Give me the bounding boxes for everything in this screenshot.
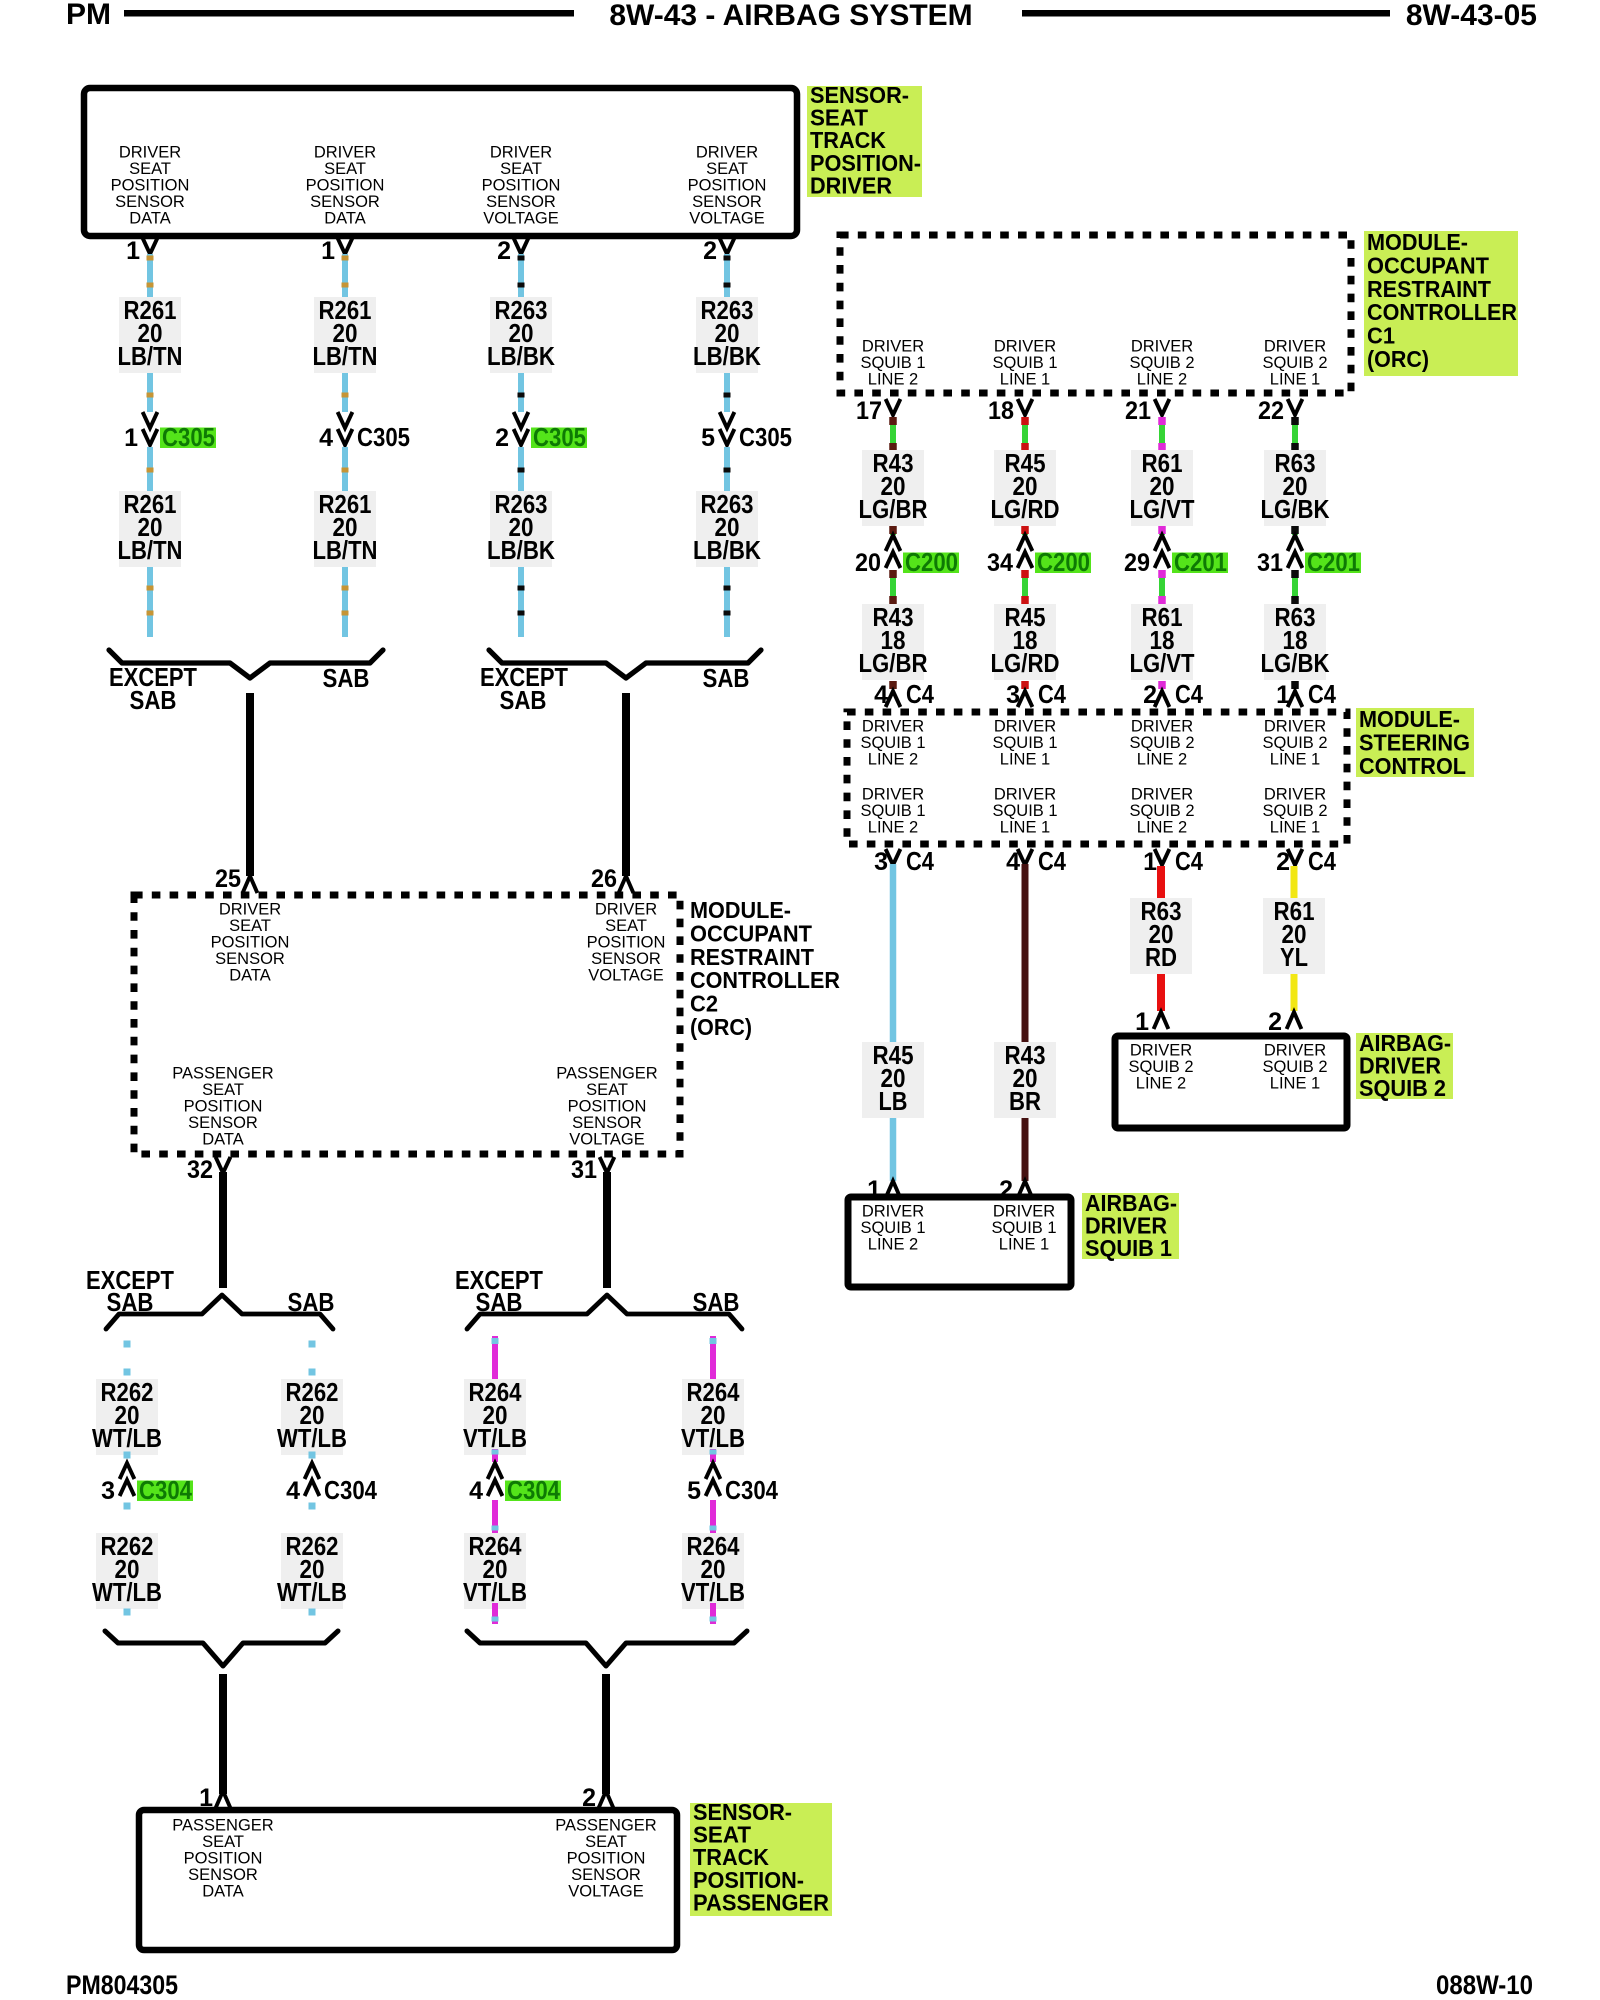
wire R43 segment (ORC pin 17 to label) xyxy=(889,417,897,451)
svg-text:OCCUPANT: OCCUPANT xyxy=(690,920,812,946)
svg-text:SENSOR: SENSOR xyxy=(188,1114,258,1132)
connector C4 pin 2 (steering module bottom) xyxy=(1276,846,1336,876)
wire segment (C200 to label) xyxy=(1021,570,1029,604)
svg-text:18: 18 xyxy=(988,397,1014,425)
pin label driver squib 2 line 1 (squib 2 pin 2) xyxy=(1262,1042,1327,1093)
wire R43 BR segment (label to squib 1) xyxy=(1022,1118,1029,1181)
svg-text:(ORC): (ORC) xyxy=(690,1014,752,1040)
wire R43 BR segment (C4 to label) xyxy=(1022,864,1029,1042)
wire label R63 20 RD xyxy=(1130,896,1192,974)
wire segment (lower col 1, C304 to label) xyxy=(124,1503,131,1510)
svg-text:LB/BK: LB/BK xyxy=(693,341,761,371)
wire label R61 18 LG/VT xyxy=(1130,602,1195,680)
svg-text:DRIVER: DRIVER xyxy=(1264,338,1326,356)
connector C304 pin 4 (lower col 3) xyxy=(469,1463,561,1505)
svg-text:SEAT: SEAT xyxy=(585,1833,627,1851)
svg-text:SQUIB 1: SQUIB 1 xyxy=(860,734,925,752)
svg-text:SQUIB 2: SQUIB 2 xyxy=(1129,802,1194,820)
wire label R45 20 LG/RD xyxy=(991,448,1060,526)
pin 25 of ORC C2 xyxy=(215,865,257,893)
svg-text:PASSENGER: PASSENGER xyxy=(556,1065,658,1083)
pin label driver squib 1 line 2 (steering module out, col 1) xyxy=(860,786,925,837)
label SAB (right pair) xyxy=(703,663,750,693)
label SAB (left pair) xyxy=(323,663,370,693)
svg-text:SENSOR: SENSOR xyxy=(310,193,380,211)
svg-text:17: 17 xyxy=(856,397,882,425)
svg-text:SAB: SAB xyxy=(130,685,177,715)
svg-text:32: 32 xyxy=(187,1156,213,1184)
wire R63 RD segment (label to squib 2) xyxy=(1157,974,1165,1011)
header rule left xyxy=(124,10,574,17)
wire label R264 20 VT/LB (lower, lower col 4) xyxy=(681,1531,745,1609)
svg-text:2: 2 xyxy=(1276,848,1290,876)
wire merged to passenger sensor pin 1 xyxy=(219,1674,227,1794)
svg-text:SQUIB 1: SQUIB 1 xyxy=(860,354,925,372)
wire R61 YL segment (label to squib 2) xyxy=(1291,974,1298,1011)
svg-text:1: 1 xyxy=(124,424,138,452)
svg-text:SQUIB 2: SQUIB 2 xyxy=(1359,1075,1446,1101)
svg-text:SQUIB 2: SQUIB 2 xyxy=(1262,734,1327,752)
wire label R61 20 LG/VT xyxy=(1130,448,1195,526)
pin 31 of ORC C2 xyxy=(571,1156,614,1184)
svg-text:VOLTAGE: VOLTAGE xyxy=(588,967,664,985)
wire label R264 20 VT/LB (upper, lower col 4) xyxy=(681,1377,745,1455)
svg-text:SQUIB 2: SQUIB 2 xyxy=(1128,1058,1193,1076)
svg-text:DRIVER: DRIVER xyxy=(1264,786,1326,804)
svg-text:LB/BK: LB/BK xyxy=(487,535,555,565)
label sensor seat track position passenger (highlighted) xyxy=(690,1799,832,1916)
svg-text:C4: C4 xyxy=(1308,846,1336,876)
wire label R262 20 WT/LB (lower, lower col 2) xyxy=(277,1531,347,1609)
wire label R63 18 LG/BK xyxy=(1261,602,1330,680)
splice brace EXCEPT SAB / SAB (left pair) xyxy=(109,650,383,678)
connector C4 pin 3 (steering module bottom) xyxy=(874,846,934,876)
svg-text:31: 31 xyxy=(571,1156,597,1184)
svg-text:DRIVER: DRIVER xyxy=(119,144,181,162)
svg-text:POSITION: POSITION xyxy=(482,177,561,195)
svg-text:34: 34 xyxy=(987,549,1013,577)
svg-text:LG/RD: LG/RD xyxy=(991,494,1060,524)
svg-text:MODULE-: MODULE- xyxy=(1359,706,1460,732)
svg-text:LB/TN: LB/TN xyxy=(118,535,183,565)
svg-text:C304: C304 xyxy=(324,1475,377,1505)
wire segment (lower col 1, label to C304) xyxy=(124,1452,131,1459)
wire label R264 20 VT/LB (upper, lower col 3) xyxy=(463,1377,527,1455)
svg-text:YL: YL xyxy=(1280,942,1308,972)
svg-text:LINE 1: LINE 1 xyxy=(1000,819,1050,837)
svg-text:RESTRAINT: RESTRAINT xyxy=(690,944,814,970)
connector C305 pin 5 (col 4) xyxy=(701,412,792,452)
svg-text:4: 4 xyxy=(874,681,888,709)
wire R263 segment (col 4, pin to label) xyxy=(724,254,731,297)
connector C4 pin 4 (steering module bottom) xyxy=(1006,846,1066,876)
pin label passenger seat position sensor data (ORC C2 pin 32) xyxy=(172,1065,274,1149)
svg-text:C305: C305 xyxy=(162,422,215,452)
svg-text:VOLTAGE: VOLTAGE xyxy=(689,210,765,228)
pin label driver squib 2 line 2 (steering module out, col 3) xyxy=(1129,786,1194,837)
header label PM xyxy=(66,0,111,31)
svg-text:DATA: DATA xyxy=(129,210,171,228)
svg-text:DATA: DATA xyxy=(202,1131,244,1149)
label EXCEPT SAB (lower left) xyxy=(86,1265,174,1317)
svg-text:C200: C200 xyxy=(1037,547,1090,577)
svg-text:POSITION: POSITION xyxy=(184,1850,263,1868)
label sensor seat track position driver (highlighted) xyxy=(807,82,922,198)
svg-text:SQUIB 2: SQUIB 2 xyxy=(1262,1058,1327,1076)
wire label R261 20 LB/TN (upper, col 1) xyxy=(118,295,183,373)
svg-text:PASSENGER: PASSENGER xyxy=(172,1817,274,1835)
svg-text:POSITION: POSITION xyxy=(111,177,190,195)
svg-text:SAB: SAB xyxy=(500,685,547,715)
wire R45 LB segment (label to squib 1) xyxy=(890,1118,897,1181)
pin label driver squib 2 line 1 (steering module out, col 4) xyxy=(1262,786,1327,837)
wire R262 segment (lower col 1, brace to label) xyxy=(124,1341,131,1376)
svg-text:LINE 2: LINE 2 xyxy=(868,371,918,389)
svg-text:SENSOR: SENSOR xyxy=(692,193,762,211)
svg-text:WT/LB: WT/LB xyxy=(92,1577,162,1607)
wire segment (C201 to label) xyxy=(1158,570,1166,604)
svg-text:DRIVER: DRIVER xyxy=(314,144,376,162)
svg-text:SQUIB 1: SQUIB 1 xyxy=(992,734,1057,752)
airbag driver squib 2 (component box) xyxy=(1115,1036,1347,1128)
wire segment (col 3, C305 to label) xyxy=(518,447,525,491)
module occupant restraint controller C2 (dashed box) xyxy=(134,895,680,1154)
svg-text:DRIVER: DRIVER xyxy=(862,786,924,804)
pin label passenger seat position sensor voltage (sensor pin 2) xyxy=(555,1817,657,1901)
wire label R264 20 VT/LB (lower, lower col 3) xyxy=(463,1531,527,1609)
svg-text:DATA: DATA xyxy=(324,210,366,228)
wire label R263 20 LB/BK (lower, col 4) xyxy=(693,489,761,567)
svg-text:20: 20 xyxy=(855,549,881,577)
pin label passenger seat position sensor voltage (ORC C2 pin 31) xyxy=(556,1065,658,1149)
header rule right xyxy=(1022,10,1390,17)
wire segment (col 4, C305 to label) xyxy=(724,447,731,491)
wire R61 YL segment (C4 to label) xyxy=(1291,866,1298,898)
split brace EXCEPT SAB / SAB (lower right pair) xyxy=(467,1295,742,1329)
merge brace (bottom left pair) xyxy=(105,1631,338,1666)
svg-text:RD: RD xyxy=(1145,942,1177,972)
wire R264 segment (lower col 3, brace to label) xyxy=(492,1336,499,1379)
merge brace (bottom right pair) xyxy=(467,1631,747,1666)
connector C201 pin 31 xyxy=(1257,535,1361,577)
label SAB (lower right pair) xyxy=(693,1287,740,1317)
connector C304 pin 5 (lower col 4) xyxy=(687,1463,778,1505)
svg-text:SQUIB 1: SQUIB 1 xyxy=(860,1219,925,1237)
pin label driver squib 1 line 1 (steering module in, col 2) xyxy=(992,718,1057,769)
svg-text:DRIVER: DRIVER xyxy=(219,901,281,919)
svg-text:C304: C304 xyxy=(725,1475,778,1505)
svg-text:LG/BK: LG/BK xyxy=(1261,648,1330,678)
svg-text:5: 5 xyxy=(687,1477,701,1505)
wire label R263 20 LB/BK (lower, col 3) xyxy=(487,489,555,567)
wire label R43 18 LG/BR xyxy=(859,602,928,680)
svg-text:LB/TN: LB/TN xyxy=(313,535,378,565)
svg-text:LINE 1: LINE 1 xyxy=(1000,751,1050,769)
svg-text:C201: C201 xyxy=(1174,547,1227,577)
wire label R61 20 YL xyxy=(1263,896,1325,974)
wire segment (col 2, label to splice brace) xyxy=(342,567,349,637)
pin 2 of airbag driver squib 2 xyxy=(1268,1008,1301,1036)
svg-text:LINE 2: LINE 2 xyxy=(868,819,918,837)
svg-text:4: 4 xyxy=(1006,848,1020,876)
svg-text:PM804305: PM804305 xyxy=(66,1970,178,2000)
svg-text:LINE 1: LINE 1 xyxy=(1270,751,1320,769)
svg-text:LG/VT: LG/VT xyxy=(1130,494,1195,524)
svg-text:SEAT: SEAT xyxy=(324,160,366,178)
wire R261 segment (col 2, pin to label) xyxy=(342,254,349,297)
svg-text:VT/LB: VT/LB xyxy=(463,1577,527,1607)
pin 18 of ORC C1 xyxy=(988,397,1032,425)
svg-text:SQUIB 2: SQUIB 2 xyxy=(1129,354,1194,372)
svg-text:POSITION: POSITION xyxy=(688,177,767,195)
pin 1 of passenger seat track sensor xyxy=(199,1784,230,1812)
svg-text:LG/BR: LG/BR xyxy=(859,494,928,524)
wire R63 RD segment (C4 to label) xyxy=(1157,866,1165,898)
wire label R263 20 LB/BK (upper, col 4) xyxy=(693,295,761,373)
svg-text:LINE 1: LINE 1 xyxy=(1270,371,1320,389)
airbag driver squib 1 (component box) xyxy=(848,1197,1071,1287)
wire from ORC C2 pin 32 xyxy=(219,1172,227,1288)
pin label driver squib 1 line 1 (steering module out, col 2) xyxy=(992,786,1057,837)
label EXCEPT SAB (right pair) xyxy=(480,662,568,715)
wire segment (lower col 3, C304 to label) xyxy=(492,1500,499,1533)
svg-text:3: 3 xyxy=(1006,681,1020,709)
svg-text:LG/BK: LG/BK xyxy=(1261,494,1330,524)
pin 1 of airbag driver squib 2 xyxy=(1135,1008,1168,1036)
svg-text:SAB: SAB xyxy=(703,663,750,693)
svg-text:LINE 2: LINE 2 xyxy=(868,1236,918,1254)
svg-text:31: 31 xyxy=(1257,549,1283,577)
wire segment (lower col 1, label to merge brace) xyxy=(124,1609,131,1616)
svg-text:SQUIB 2: SQUIB 2 xyxy=(1262,802,1327,820)
svg-text:VT/LB: VT/LB xyxy=(463,1423,527,1453)
pin 1 of driver seat track sensor (col 2) xyxy=(321,237,352,265)
wire segment (label to C201) xyxy=(1158,526,1166,535)
wire segment (col 1, label to C305) xyxy=(147,373,154,412)
wire label R263 20 LB/BK (upper, col 3) xyxy=(487,295,555,373)
connector C305 pin 1 (col 1) xyxy=(124,412,216,452)
pin label driver seat position sensor voltage (col 3) xyxy=(482,144,561,228)
svg-text:C304: C304 xyxy=(139,1475,192,1505)
pin 2 of airbag driver squib 1 xyxy=(999,1176,1032,1204)
wire segment (col 4, label to splice brace) xyxy=(724,567,731,637)
wire label R261 20 LB/TN (lower, col 1) xyxy=(118,489,183,567)
wire label R262 20 WT/LB (lower, lower col 1) xyxy=(92,1531,162,1609)
wire segment (label to C201) xyxy=(1291,526,1299,535)
svg-text:5: 5 xyxy=(701,424,715,452)
label module steering control (highlighted) xyxy=(1356,706,1474,779)
svg-text:DRIVER: DRIVER xyxy=(810,172,892,198)
wire segment (lower col 4, C304 to label) xyxy=(710,1500,717,1533)
svg-text:SQUIB 1: SQUIB 1 xyxy=(992,802,1057,820)
label module occupant restraint controller C1 (ORC) (highlighted) xyxy=(1364,229,1518,376)
svg-text:POSITION: POSITION xyxy=(587,934,666,952)
svg-text:CONTROL: CONTROL xyxy=(1359,753,1466,779)
svg-text:C1: C1 xyxy=(1367,323,1395,349)
svg-text:SEAT: SEAT xyxy=(706,160,748,178)
svg-text:DRIVER: DRIVER xyxy=(1264,1042,1326,1060)
svg-text:SEAT: SEAT xyxy=(500,160,542,178)
svg-text:SAB: SAB xyxy=(476,1287,523,1317)
wire label R261 20 LB/TN (lower, col 2) xyxy=(313,489,378,567)
svg-text:2: 2 xyxy=(703,237,717,265)
svg-text:SEAT: SEAT xyxy=(202,1081,244,1099)
pin 32 of ORC C2 xyxy=(187,1156,230,1184)
svg-text:STEERING: STEERING xyxy=(1359,729,1470,755)
svg-text:SAB: SAB xyxy=(107,1287,154,1317)
svg-text:LB/BK: LB/BK xyxy=(693,535,761,565)
pin 1 of driver seat track sensor (col 1) xyxy=(126,237,157,265)
connector C4 pin 4 (steering module top) xyxy=(874,679,934,709)
connector C200 pin 20 xyxy=(855,535,959,577)
svg-text:C4: C4 xyxy=(1038,846,1066,876)
svg-text:LG/RD: LG/RD xyxy=(991,648,1060,678)
wire R264 segment (lower col 4, brace to label) xyxy=(710,1336,717,1379)
wire segment (col 1, label to splice brace) xyxy=(147,567,154,637)
pin 22 of ORC C1 xyxy=(1258,397,1302,425)
wire segment (col 1, C305 to label) xyxy=(147,447,154,491)
svg-text:(ORC): (ORC) xyxy=(1367,346,1429,372)
svg-text:LINE 1: LINE 1 xyxy=(1270,1075,1320,1093)
svg-text:BR: BR xyxy=(1009,1086,1041,1116)
svg-text:MODULE-: MODULE- xyxy=(1367,229,1468,255)
svg-text:4: 4 xyxy=(319,424,333,452)
pin label driver squib 1 line 2 (squib 1 pin 1) xyxy=(860,1203,925,1254)
svg-text:POSITION: POSITION xyxy=(211,934,290,952)
svg-text:SAB: SAB xyxy=(288,1287,335,1317)
pin 2 of driver seat track sensor (col 4) xyxy=(703,237,734,265)
wire segment (lower col 2, label to C304) xyxy=(309,1452,316,1459)
pin label driver squib 1 line 1 (ORC C1 col 2) xyxy=(992,338,1057,389)
svg-text:DRIVER: DRIVER xyxy=(1131,786,1193,804)
connector C200 pin 34 xyxy=(987,535,1091,577)
wire segment (col 4, label to C305) xyxy=(724,373,731,412)
svg-text:LG/VT: LG/VT xyxy=(1130,648,1195,678)
svg-text:8W-43-05: 8W-43-05 xyxy=(1406,0,1537,32)
svg-text:4: 4 xyxy=(286,1477,300,1505)
svg-text:WT/LB: WT/LB xyxy=(277,1423,347,1453)
svg-text:RESTRAINT: RESTRAINT xyxy=(1367,276,1491,302)
svg-text:CONTROLLER: CONTROLLER xyxy=(690,967,840,993)
svg-text:25: 25 xyxy=(215,865,241,893)
svg-text:DRIVER: DRIVER xyxy=(1131,718,1193,736)
svg-text:3: 3 xyxy=(101,1477,115,1505)
svg-text:2: 2 xyxy=(495,424,509,452)
svg-text:PM: PM xyxy=(66,0,111,31)
svg-text:DRIVER: DRIVER xyxy=(1130,1042,1192,1060)
wire label R45 20 LB xyxy=(862,1040,924,1118)
pin label driver seat position sensor data (col 1) xyxy=(111,144,190,228)
svg-text:C4: C4 xyxy=(1175,679,1203,709)
wire label R261 20 LB/TN (upper, col 2) xyxy=(313,295,378,373)
connector C4 pin 2 (steering module top) xyxy=(1143,679,1203,709)
wire segment (lower col 3, label to merge brace) xyxy=(492,1603,499,1624)
svg-text:C2: C2 xyxy=(690,991,718,1017)
svg-text:OCCUPANT: OCCUPANT xyxy=(1367,252,1489,278)
label SAB (lower left pair) xyxy=(288,1287,335,1317)
wire segment (col 3, label to splice brace) xyxy=(518,567,525,637)
wire label R262 20 WT/LB (upper, lower col 2) xyxy=(277,1377,347,1455)
svg-text:SENSOR: SENSOR xyxy=(572,1114,642,1132)
svg-text:PASSENGER: PASSENGER xyxy=(555,1817,657,1835)
header page number 8W-43-05 xyxy=(1406,0,1537,32)
pin label driver squib 1 line 2 (ORC C1 col 1) xyxy=(860,338,925,389)
pin label driver squib 2 line 1 (ORC C1 col 4) xyxy=(1262,338,1327,389)
wire merged to ORC C2 pin 26 xyxy=(622,693,630,876)
svg-text:LINE 2: LINE 2 xyxy=(1137,819,1187,837)
wire segment (label to C200) xyxy=(889,526,897,535)
svg-text:POSITION: POSITION xyxy=(568,1098,647,1116)
wire segment (lower col 2, label to merge brace) xyxy=(309,1609,316,1616)
svg-text:1: 1 xyxy=(1276,681,1290,709)
svg-text:1: 1 xyxy=(126,237,140,265)
svg-text:SEAT: SEAT xyxy=(605,917,647,935)
svg-text:LINE 2: LINE 2 xyxy=(1137,751,1187,769)
svg-text:2: 2 xyxy=(1143,681,1157,709)
pin label driver seat position sensor data (ORC C2 pin 25) xyxy=(211,901,290,985)
label module occupant restraint controller C2 (ORC) xyxy=(690,897,840,1040)
wire from ORC C2 pin 31 xyxy=(603,1172,611,1288)
wire label R63 20 LG/BK xyxy=(1261,448,1330,526)
wire segment (lower col 4, label to C304) xyxy=(710,1449,717,1462)
svg-text:VT/LB: VT/LB xyxy=(681,1577,745,1607)
svg-text:DRIVER: DRIVER xyxy=(994,338,1056,356)
svg-text:SEAT: SEAT xyxy=(129,160,171,178)
svg-text:26: 26 xyxy=(591,865,617,893)
label airbag driver squib 1 (highlighted) xyxy=(1082,1190,1179,1261)
label airbag driver squib 2 (highlighted) xyxy=(1356,1030,1453,1101)
svg-text:SQUIB 2: SQUIB 2 xyxy=(1129,734,1194,752)
svg-text:LINE 1: LINE 1 xyxy=(1270,819,1320,837)
svg-text:DRIVER: DRIVER xyxy=(862,1203,924,1221)
svg-text:4: 4 xyxy=(469,1477,483,1505)
svg-text:LB: LB xyxy=(879,1086,908,1116)
sensor seat track position passenger (component box) xyxy=(139,1810,677,1950)
svg-text:DRIVER: DRIVER xyxy=(862,718,924,736)
wire segment (col 3, label to C305) xyxy=(518,373,525,412)
svg-text:VOLTAGE: VOLTAGE xyxy=(568,1883,644,1901)
svg-text:LINE 2: LINE 2 xyxy=(868,751,918,769)
wire segment (label to C200) xyxy=(1021,526,1029,535)
svg-text:WT/LB: WT/LB xyxy=(277,1577,347,1607)
svg-text:C4: C4 xyxy=(1038,679,1066,709)
svg-text:SQUIB 1: SQUIB 1 xyxy=(991,1219,1056,1237)
svg-text:VT/LB: VT/LB xyxy=(681,1423,745,1453)
svg-text:SQUIB 1: SQUIB 1 xyxy=(992,354,1057,372)
svg-text:WT/LB: WT/LB xyxy=(92,1423,162,1453)
svg-text:SAB: SAB xyxy=(323,663,370,693)
svg-text:DRIVER: DRIVER xyxy=(696,144,758,162)
svg-text:LB/TN: LB/TN xyxy=(118,341,183,371)
connector C304 pin 4 (lower col 2) xyxy=(286,1463,377,1505)
pin label driver squib 2 line 2 (squib 2 pin 1) xyxy=(1128,1042,1193,1093)
svg-text:SENSOR: SENSOR xyxy=(486,193,556,211)
label EXCEPT SAB (lower right) xyxy=(455,1265,543,1317)
svg-text:PASSENGER: PASSENGER xyxy=(172,1065,274,1083)
pin label driver squib 2 line 1 (steering module in, col 4) xyxy=(1262,718,1327,769)
wire R261 segment (col 1, pin to label) xyxy=(147,254,154,297)
pin 1 of airbag driver squib 1 xyxy=(867,1176,900,1204)
header title 8W-43 - AIRBAG SYSTEM xyxy=(609,0,972,32)
pin label passenger seat position sensor data (sensor pin 1) xyxy=(172,1817,274,1901)
pin 21 of ORC C1 xyxy=(1125,397,1169,425)
wire R262 segment (lower col 2, brace to label) xyxy=(309,1341,316,1376)
svg-text:LB/BK: LB/BK xyxy=(487,341,555,371)
svg-text:DRIVER: DRIVER xyxy=(490,144,552,162)
connector C305 pin 4 (col 2) xyxy=(319,412,410,452)
svg-text:MODULE-: MODULE- xyxy=(690,897,791,923)
wire label R262 20 WT/LB (upper, lower col 1) xyxy=(92,1377,162,1455)
